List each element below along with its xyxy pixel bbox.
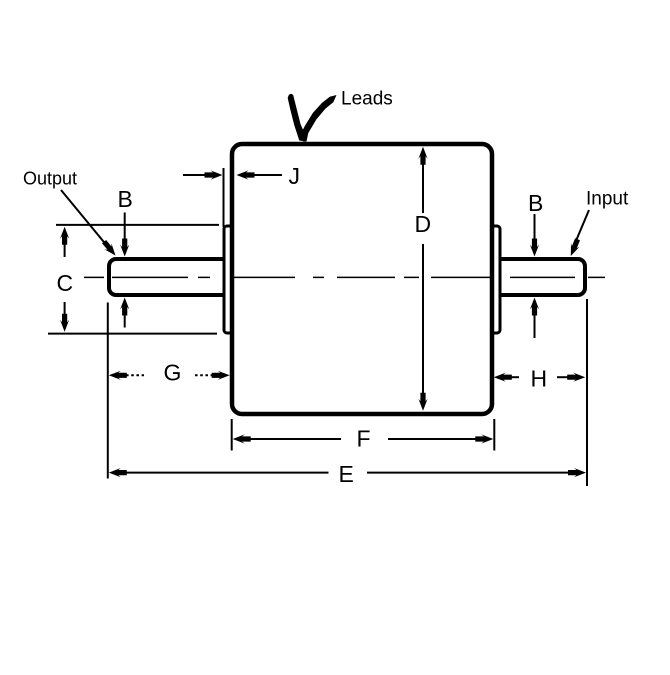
dim C top extension line bbox=[56, 224, 219, 226]
dim C bottom extension line bbox=[48, 333, 217, 335]
centerline (dashed axis) bbox=[84, 276, 605, 278]
input shaft (right) bbox=[490, 259, 585, 295]
Output leader line bbox=[61, 190, 108, 247]
svg-text:F: F bbox=[357, 426, 371, 452]
output shaft (left) bbox=[109, 259, 238, 295]
dim J right arrow bbox=[250, 174, 282, 176]
svg-text:B: B bbox=[528, 190, 543, 216]
dim C bottom arrow bbox=[64, 302, 66, 321]
dim E right arrow bbox=[367, 472, 574, 474]
svg-text:Input: Input bbox=[586, 189, 629, 210]
svg-text:H: H bbox=[531, 366, 548, 392]
left flange boss bbox=[224, 226, 238, 333]
dim F left extension line bbox=[231, 419, 233, 451]
dim E left arrow bbox=[121, 472, 329, 474]
lead wires bbox=[288, 94, 307, 142]
svg-text:Output: Output bbox=[23, 169, 77, 189]
svg-text:Leads: Leads bbox=[341, 89, 393, 110]
dim D top arrow bbox=[422, 157, 424, 213]
dim B (left) bottom arrow bbox=[124, 309, 126, 328]
dim B (right) top arrow bbox=[534, 214, 536, 245]
dim B (left) top arrow bbox=[124, 213, 126, 246]
dim G left arrow bbox=[109, 371, 127, 380]
svg-text:J: J bbox=[289, 163, 301, 189]
Input leader line bbox=[576, 210, 590, 242]
svg-text:E: E bbox=[339, 461, 354, 487]
dim H left arrow bbox=[494, 373, 512, 382]
dim J extension line bbox=[223, 168, 225, 227]
right flange boss bbox=[486, 226, 500, 333]
dim E left extension line bbox=[107, 303, 109, 479]
dim E right extension line bbox=[586, 299, 588, 486]
dim F right extension line bbox=[493, 419, 495, 451]
dim F left arrow bbox=[246, 438, 341, 440]
gearbox body bbox=[232, 144, 492, 414]
dim J left arrow bbox=[183, 174, 208, 176]
svg-text:C: C bbox=[57, 270, 74, 296]
dim H right arrow bbox=[557, 376, 569, 378]
svg-text:G: G bbox=[164, 360, 182, 386]
dim C top arrow bbox=[64, 238, 66, 257]
dim B (right) bottom arrow bbox=[534, 309, 536, 338]
dim D bottom arrow bbox=[422, 244, 424, 400]
dim G right arrow bbox=[195, 374, 214, 376]
svg-text:B: B bbox=[118, 186, 133, 212]
svg-text:D: D bbox=[415, 211, 432, 237]
dim F right arrow bbox=[388, 438, 480, 440]
